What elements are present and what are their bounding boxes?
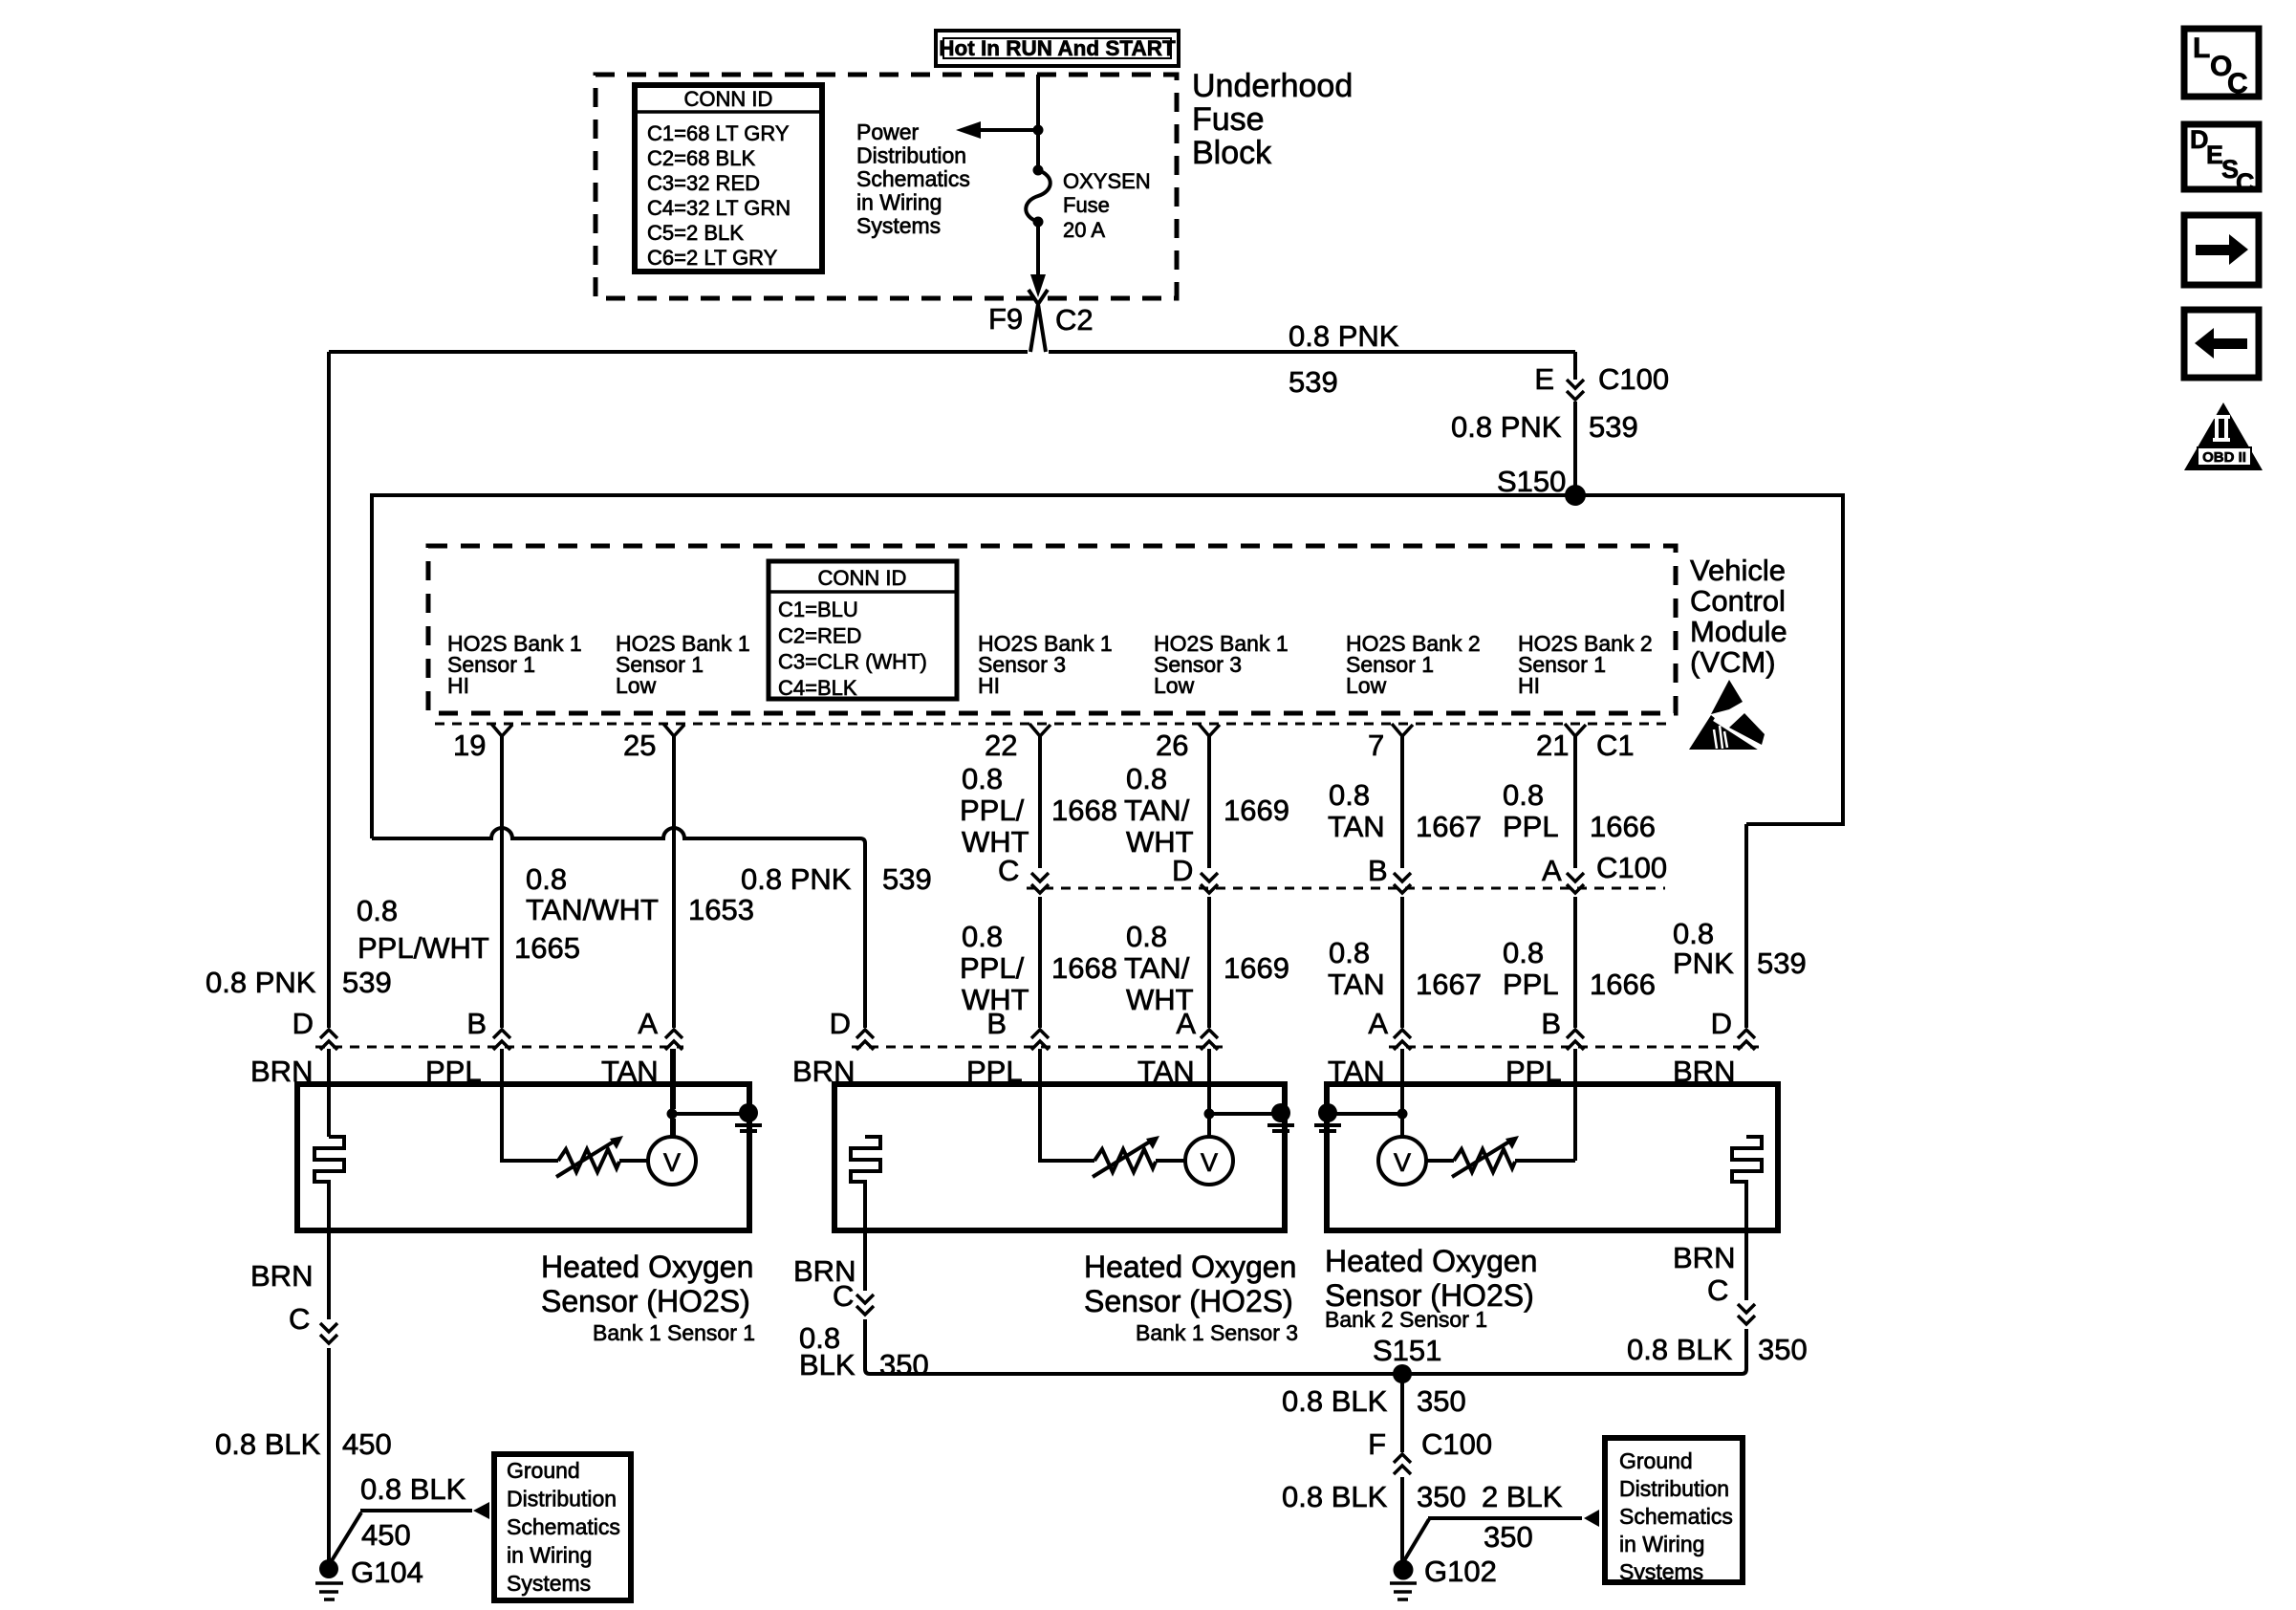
svg-text:0.8: 0.8 (526, 862, 567, 896)
svg-text:A: A (1368, 1007, 1388, 1040)
connector chevrons C100 pin E (1567, 380, 1584, 400)
svg-text:0.8: 0.8 (1126, 762, 1167, 795)
svg-text:Distribution: Distribution (1619, 1476, 1729, 1501)
wire TAN junction sensor 2 (1209, 1049, 1281, 1137)
svg-text:(VCM): (VCM) (1690, 645, 1776, 679)
svg-text:Systems: Systems (1619, 1559, 1703, 1584)
svg-text:26: 26 (1156, 729, 1188, 762)
svg-text:PPL: PPL (1503, 810, 1559, 843)
svg-text:Sensor (HO2S): Sensor (HO2S) (1084, 1284, 1293, 1318)
svg-text:A: A (1542, 854, 1562, 887)
svg-text:C100: C100 (1421, 1427, 1492, 1461)
VCM pin Y-connector pin 22 (1029, 724, 1051, 736)
svg-text:S150: S150 (1497, 465, 1566, 498)
Underhood Fuse Block dashed box (596, 75, 1177, 298)
svg-text:25: 25 (623, 729, 656, 762)
svg-text:PPL/: PPL/ (960, 951, 1025, 985)
wire BRN C sensor 2 down (863, 1230, 867, 1291)
svg-text:1665: 1665 (514, 931, 580, 965)
svg-text:Sensor (HO2S): Sensor (HO2S) (541, 1284, 750, 1318)
svg-text:D: D (292, 1007, 314, 1040)
wire PPL/WHT 1668 (pin 22) (1040, 735, 1094, 1161)
VCM pin Y-connector pin 21 (1565, 724, 1586, 736)
svg-text:1667: 1667 (1416, 968, 1482, 1001)
ESD sensitivity symbol (1711, 680, 1743, 714)
wire TAN 1667 (pin 7) (1400, 735, 1404, 1137)
connector chevrons sensor pin (1394, 1030, 1411, 1050)
wire from hot feed into fuse (1036, 75, 1040, 165)
svg-text:C2=RED: C2=RED (778, 623, 861, 647)
svg-text:Block: Block (1192, 135, 1272, 171)
svg-text:C100: C100 (1598, 362, 1669, 396)
voltage cell V sensor 1 (648, 1137, 696, 1185)
connector chevrons sensor pin (1031, 1030, 1049, 1050)
svg-text:C: C (289, 1302, 310, 1336)
connector chevrons C100 (1567, 873, 1584, 893)
left arrow icon (2184, 310, 2259, 378)
voltage cell V sensor 2 (1185, 1137, 1233, 1185)
svg-text:20 A: 20 A (1063, 218, 1105, 242)
svg-text:C2: C2 (1055, 303, 1094, 337)
splice S150 (1565, 485, 1586, 506)
svg-text:0.8 PNK: 0.8 PNK (741, 862, 852, 896)
svg-text:V: V (1394, 1148, 1411, 1177)
VCM pin Y-connector pin 7 (1392, 724, 1413, 736)
svg-text:0.8 PNK: 0.8 PNK (1289, 319, 1399, 353)
svg-text:Underhood: Underhood (1192, 68, 1353, 104)
connector chevrons sensor pin (493, 1030, 510, 1050)
VCM connector dashed line (435, 723, 1673, 726)
svg-text:1653: 1653 (688, 893, 754, 926)
OBD II icon (2184, 402, 2263, 470)
svg-text:1667: 1667 (1416, 810, 1482, 843)
wire bottom-left PNK with hops to middle sensor (372, 828, 865, 1028)
svg-text:1668: 1668 (1051, 951, 1117, 985)
svg-text:Schematics: Schematics (507, 1514, 620, 1539)
svg-text:BLK: BLK (799, 1348, 856, 1382)
svg-text:C100: C100 (1596, 851, 1667, 884)
svg-text:Distribution: Distribution (856, 143, 966, 168)
svg-text:Ground: Ground (507, 1458, 580, 1483)
svg-text:F: F (1368, 1427, 1386, 1461)
svg-text:0.8 PNK: 0.8 PNK (1451, 410, 1562, 444)
svg-text:Fuse: Fuse (1063, 193, 1110, 217)
svg-text:0.8: 0.8 (1673, 917, 1714, 950)
svg-text:TAN/: TAN/ (1124, 794, 1190, 827)
connector chevrons sensor pin (665, 1030, 682, 1050)
svg-text:C3=CLR (WHT): C3=CLR (WHT) (778, 650, 927, 674)
svg-text:D: D (1711, 1007, 1732, 1040)
svg-text:in Wiring: in Wiring (507, 1543, 592, 1568)
svg-text:in Wiring: in Wiring (856, 190, 942, 215)
svg-text:A: A (638, 1007, 658, 1040)
svg-text:G102: G102 (1424, 1555, 1497, 1588)
svg-text:1666: 1666 (1590, 968, 1656, 1001)
connector chevrons sensor pin (320, 1030, 337, 1050)
sensor 2 connector dashed line (852, 1046, 1224, 1049)
svg-text:HI: HI (447, 673, 469, 698)
variable resistor (sensing element) sensor 2 (1094, 1149, 1156, 1172)
voltage cell V sensor 3 (1378, 1137, 1426, 1185)
svg-text:1669: 1669 (1224, 794, 1289, 827)
Hot In RUN And START label box (936, 31, 1179, 66)
svg-text:D: D (1172, 854, 1193, 887)
Vehicle Control Module dashed box (428, 546, 1676, 713)
connector chevrons sensor 2 pin C (856, 1295, 874, 1315)
Heated Oxygen Sensor box (Bank 1 Sensor 1) (297, 1084, 749, 1230)
Ground Distribution Schematics box (right) (1605, 1438, 1743, 1582)
heater element sensor 1 (314, 1137, 344, 1230)
svg-text:539: 539 (1289, 365, 1338, 399)
svg-text:E: E (1534, 362, 1554, 396)
svg-text:TAN: TAN (1328, 810, 1385, 843)
connector chevrons sensor pin (1567, 1030, 1584, 1050)
svg-text:BRN: BRN (250, 1259, 313, 1293)
svg-text:0.8: 0.8 (1329, 778, 1370, 812)
wire PPL 1666 (pin 21) (1573, 735, 1577, 1161)
connector chevrons sensor pin (856, 1030, 874, 1050)
svg-text:539: 539 (342, 966, 392, 999)
svg-text:C: C (833, 1279, 854, 1313)
svg-text:in Wiring: in Wiring (1619, 1532, 1704, 1556)
svg-text:Module: Module (1690, 615, 1787, 648)
svg-text:TAN/WHT: TAN/WHT (526, 893, 659, 926)
wire down to C100 pin E (1573, 352, 1577, 487)
right arrow icon (2184, 215, 2259, 285)
svg-text:Ground: Ground (1619, 1448, 1693, 1473)
svg-text:Hot In RUN And START: Hot In RUN And START (939, 36, 1176, 60)
svg-text:PNK: PNK (1673, 946, 1734, 980)
CONN ID table (VCM) (769, 561, 957, 699)
svg-text:Systems: Systems (856, 213, 941, 238)
svg-text:22: 22 (985, 729, 1017, 762)
connector chevrons sensor 1 pin C (320, 1323, 337, 1343)
wire TAN junction sensor 3 (1328, 1049, 1402, 1137)
junction node on fuse feed (1033, 125, 1044, 136)
svg-text:450: 450 (342, 1427, 392, 1461)
svg-text:350: 350 (1417, 1480, 1466, 1513)
svg-text:350: 350 (879, 1348, 929, 1382)
connector F9/C2 scissors symbol (1029, 290, 1048, 352)
svg-text:PPL: PPL (1503, 968, 1559, 1001)
svg-text:A: A (1176, 1007, 1196, 1040)
VCM pin Y-connector pin 25 (663, 724, 684, 736)
svg-text:Low: Low (1154, 673, 1195, 698)
svg-text:C3=32 RED: C3=32 RED (647, 171, 760, 195)
wire 0.8 BLK 450 to ground distribution (331, 1511, 472, 1562)
svg-text:CONN ID: CONN ID (818, 566, 907, 590)
connector chevrons C100 (1394, 873, 1411, 893)
heater element sensor 3 (1732, 1137, 1762, 1230)
Ground Distribution Schematics box (left) (494, 1454, 631, 1600)
DESC icon (2184, 124, 2259, 189)
svg-text:Low: Low (616, 673, 657, 698)
connector chevrons C100 (1031, 873, 1049, 893)
svg-text:C1=BLU: C1=BLU (778, 598, 858, 621)
svg-text:C: C (998, 854, 1019, 887)
svg-text:Vehicle: Vehicle (1690, 554, 1786, 587)
svg-text:OXYSEN: OXYSEN (1063, 169, 1151, 193)
svg-text:BRN: BRN (1673, 1241, 1735, 1274)
svg-text:D: D (830, 1007, 851, 1040)
wire PPL/WHT 1665 (pin 19) (502, 735, 558, 1161)
svg-text:TAN: TAN (1328, 968, 1385, 1001)
wire 0.8 PNK 539 horizontal rail (329, 350, 1575, 354)
svg-text:OBD II: OBD II (2202, 449, 2246, 466)
svg-text:B: B (466, 1007, 487, 1040)
connector chevrons sensor pin (1738, 1030, 1755, 1050)
svg-text:0.8 BLK: 0.8 BLK (1282, 1480, 1388, 1513)
svg-text:C5=2 BLK: C5=2 BLK (647, 221, 744, 245)
svg-text:C1: C1 (1596, 729, 1635, 762)
svg-text:Fuse: Fuse (1192, 101, 1265, 138)
svg-text:G104: G104 (351, 1556, 423, 1589)
wire BRN C sensor 1 down (327, 1230, 331, 1319)
fuse OXYSEN 20 A symbol (1033, 165, 1044, 176)
Heated Oxygen Sensor box (Bank 1 Sensor 3) (834, 1084, 1285, 1230)
svg-text:7: 7 (1368, 729, 1384, 762)
sensor 1 connector dashed line (315, 1046, 683, 1049)
svg-text:C1=68 LT GRY: C1=68 LT GRY (647, 121, 790, 145)
LOC icon (2184, 29, 2259, 97)
wire 2 BLK 350 to ground distribution (1403, 1518, 1582, 1562)
connector chevrons sensor 3 pin C (1738, 1304, 1755, 1324)
svg-text:0.8: 0.8 (1503, 778, 1544, 812)
svg-text:0.8: 0.8 (962, 920, 1003, 953)
svg-text:C: C (2236, 168, 2255, 197)
svg-text:0.8 BLK: 0.8 BLK (1282, 1384, 1388, 1418)
CONN ID table (fuse block) (635, 85, 822, 272)
svg-text:Heated Oxygen: Heated Oxygen (1325, 1244, 1537, 1278)
svg-text:450: 450 (361, 1518, 411, 1552)
svg-text:TAN/: TAN/ (1124, 951, 1190, 985)
svg-text:0.8 BLK: 0.8 BLK (360, 1472, 466, 1506)
wire 0.8 BLK 350 down from S151 (1400, 1374, 1404, 1452)
svg-text:1669: 1669 (1224, 951, 1289, 985)
wire PNK down to right sensor D (1744, 824, 1748, 1028)
sensor ground sensor 2 (1271, 1103, 1290, 1122)
svg-text:HI: HI (1518, 673, 1540, 698)
svg-text:PPL/WHT: PPL/WHT (357, 931, 489, 965)
variable resistor (sensing element) sensor 3 (1454, 1149, 1515, 1172)
svg-text:C: C (1707, 1273, 1728, 1307)
svg-text:Low: Low (1346, 673, 1387, 698)
svg-text:S151: S151 (1373, 1334, 1441, 1367)
svg-text:1668: 1668 (1051, 794, 1117, 827)
svg-text:B: B (986, 1007, 1007, 1040)
svg-text:PPL/: PPL/ (960, 794, 1025, 827)
svg-text:CONN ID: CONN ID (684, 87, 773, 111)
sensor 3 connector dashed line (1389, 1046, 1759, 1049)
connector C100 dashed line (1027, 887, 1665, 890)
svg-text:HI: HI (978, 673, 1000, 698)
svg-text:L: L (2193, 33, 2210, 64)
svg-text:V: V (663, 1148, 681, 1177)
svg-text:Bank 2 Sensor 1: Bank 2 Sensor 1 (1325, 1307, 1487, 1332)
svg-text:C6=2 LT GRY: C6=2 LT GRY (647, 246, 778, 270)
svg-text:539: 539 (1589, 410, 1638, 444)
wire TAN junction sensor 1 (672, 1049, 748, 1137)
wire TAN/WHT 1653 (pin 25) (672, 735, 676, 1137)
connector chevrons sensor pin (1201, 1030, 1218, 1050)
heater element sensor 2 (851, 1137, 880, 1230)
variable resistor (sensing element) sensor 1 (558, 1149, 619, 1172)
wire TAN/WHT 1669 (pin 26) (1207, 735, 1211, 1137)
svg-text:Heated Oxygen: Heated Oxygen (1084, 1250, 1296, 1284)
splice S151 (1393, 1364, 1412, 1383)
connector chevrons C100 (1201, 873, 1218, 893)
svg-text:19: 19 (453, 729, 486, 762)
svg-text:C2=68 BLK: C2=68 BLK (647, 146, 755, 170)
svg-text:2 BLK: 2 BLK (1482, 1480, 1563, 1513)
svg-text:V: V (1201, 1148, 1218, 1177)
wire VCM outline (PNK 539 feed) left/top/right (372, 495, 1843, 838)
svg-text:B: B (1541, 1007, 1561, 1040)
svg-text:C4=32 LT GRN: C4=32 LT GRN (647, 196, 791, 220)
svg-text:B: B (1368, 854, 1388, 887)
svg-text:1666: 1666 (1590, 810, 1656, 843)
sensor ground sensor 3 (1318, 1103, 1337, 1122)
wire BRN C sensor 3 down (1744, 1230, 1748, 1300)
ground G102 (1394, 1560, 1414, 1580)
svg-text:0.8 BLK: 0.8 BLK (1627, 1333, 1733, 1366)
wire left PNK rail down to sensor 1 (327, 352, 331, 1137)
svg-text:Schematics: Schematics (856, 166, 970, 191)
svg-text:Bank 1 Sensor 1: Bank 1 Sensor 1 (593, 1320, 755, 1345)
VCM pin Y-connector pin 19 (491, 724, 512, 736)
svg-text:Distribution: Distribution (507, 1487, 617, 1512)
svg-text:350: 350 (1417, 1384, 1466, 1418)
ground G104 (319, 1559, 338, 1578)
arrowhead at fuse output (1030, 274, 1046, 297)
arrow to Power Distribution reference (967, 128, 1038, 132)
svg-text:Control: Control (1690, 584, 1786, 618)
svg-text:0.8 BLK: 0.8 BLK (215, 1427, 321, 1461)
svg-text:0.8: 0.8 (1503, 936, 1544, 969)
svg-text:350: 350 (1484, 1520, 1533, 1554)
svg-text:0.8: 0.8 (357, 894, 398, 927)
svg-text:Bank 1 Sensor 3: Bank 1 Sensor 3 (1136, 1320, 1298, 1345)
svg-text:C: C (2227, 68, 2248, 99)
svg-text:539: 539 (1757, 946, 1807, 980)
Heated Oxygen Sensor box (Bank 2 Sensor 1) (1327, 1084, 1778, 1230)
svg-text:F9: F9 (988, 302, 1023, 336)
connector chevrons C100 pin F (1394, 1454, 1411, 1474)
svg-text:Systems: Systems (507, 1571, 591, 1596)
svg-text:0.8: 0.8 (1329, 936, 1370, 969)
svg-text:0.8: 0.8 (962, 762, 1003, 795)
svg-text:539: 539 (882, 862, 932, 896)
svg-text:Heated Oxygen: Heated Oxygen (541, 1250, 753, 1284)
VCM pin Y-connector pin 26 (1199, 724, 1220, 736)
svg-text:0.8: 0.8 (1126, 920, 1167, 953)
svg-text:Schematics: Schematics (1619, 1504, 1733, 1529)
svg-text:21: 21 (1536, 729, 1569, 762)
svg-text:0.8 PNK: 0.8 PNK (206, 966, 316, 999)
svg-text:C4=BLK: C4=BLK (778, 676, 857, 700)
svg-text:350: 350 (1758, 1333, 1808, 1366)
svg-text:Power: Power (856, 120, 920, 144)
sensor ground sensor 1 (739, 1103, 758, 1122)
